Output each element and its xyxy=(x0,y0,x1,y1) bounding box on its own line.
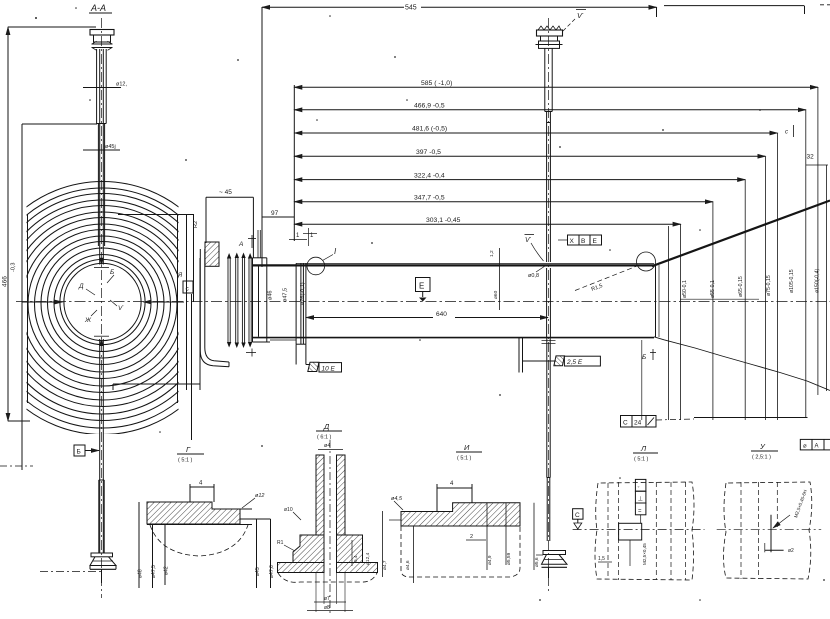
svg-text:ø2: ø2 xyxy=(788,548,794,554)
svg-text:32: 32 xyxy=(807,154,815,161)
detail У label xyxy=(752,442,771,461)
cone bottom edge xyxy=(654,337,830,391)
middle rod body xyxy=(544,48,546,111)
top dimension 545 xyxy=(262,6,404,8)
coil side cut edges xyxy=(27,214,29,403)
svg-text:ø12: ø12 xyxy=(255,493,264,499)
detail Г label xyxy=(178,445,193,464)
detail У thread callout rotated xyxy=(793,489,808,518)
dimension 466 xyxy=(21,124,23,470)
svg-text:466: 466 xyxy=(2,276,9,287)
detail Г leader ø12 xyxy=(255,493,264,499)
svg-text:ø48: ø48 xyxy=(138,569,144,578)
svg-text:c: c xyxy=(785,130,788,136)
svg-text:545: 545 xyxy=(405,5,417,12)
left outer dimension 593 xyxy=(7,27,9,421)
svg-text:( 5:1 ): ( 5:1 ) xyxy=(634,457,649,463)
svg-text:585 ( -1,0): 585 ( -1,0) xyxy=(421,80,452,87)
left rod body xyxy=(96,49,98,124)
centerline marks bottom-left xyxy=(0,465,33,467)
svg-text:ø150(-0,4): ø150(-0,4) xyxy=(815,269,821,293)
middle rod cap xyxy=(538,26,561,30)
collar on shaft xyxy=(295,263,297,344)
detail Л slot xyxy=(619,523,642,540)
mark Б at cone xyxy=(642,354,646,361)
svg-text:И: И xyxy=(464,443,470,452)
svg-text:ø105-0,15: ø105-0,15 xyxy=(789,269,795,293)
svg-text:ø7: ø7 xyxy=(324,596,330,602)
detail Г right dim verticals xyxy=(240,518,271,520)
svg-text:С: С xyxy=(623,420,628,427)
svg-text:ø5,6: ø5,6 xyxy=(534,557,540,567)
shaft bottom edge xyxy=(253,337,655,339)
svg-text:ø47,5: ø47,5 xyxy=(151,565,157,578)
left rod centerline xyxy=(101,18,103,598)
svg-text:R2: R2 xyxy=(193,221,199,228)
svg-text:ø4,5: ø4,5 xyxy=(391,496,403,502)
svg-text:ø4,9: ø4,9 xyxy=(487,555,493,565)
detail Д dashed bottom arcs xyxy=(278,573,377,582)
svg-text:Д: Д xyxy=(323,422,330,431)
extension line at x=294 xyxy=(293,85,295,241)
detail И dashed outline xyxy=(401,526,520,577)
rod dia label ø12 xyxy=(83,87,121,89)
svg-text:397 -0,5: 397 -0,5 xyxy=(416,149,441,156)
svg-text:Е: Е xyxy=(593,238,598,245)
svg-text:ø4: ø4 xyxy=(324,443,330,449)
svg-text:ø12,4: ø12,4 xyxy=(365,552,371,565)
svg-text:10 Е: 10 Е xyxy=(322,365,336,372)
middle rod collar xyxy=(539,41,560,48)
detail Д flange xyxy=(293,535,324,563)
left rod collar nut xyxy=(92,43,113,45)
svg-text:4: 4 xyxy=(450,481,454,487)
svg-text:( 5:1 ): ( 5:1 ) xyxy=(457,456,472,462)
svg-text:1: 1 xyxy=(310,233,314,239)
svg-text:Л: Л xyxy=(640,444,647,453)
svg-text:Б: Б xyxy=(77,449,81,456)
svg-text:Ѵ: Ѵ xyxy=(525,237,532,244)
svg-text:2,5 Е: 2,5 Е xyxy=(566,359,583,366)
small dims 1 xyxy=(289,239,307,241)
mark A xyxy=(238,241,243,248)
dimension stack line 5: 322,4 xyxy=(294,179,745,181)
svg-text:ø45: ø45 xyxy=(255,567,261,576)
svg-text:5,4: 5,4 xyxy=(353,555,359,562)
shaft top edge xyxy=(253,264,655,266)
svg-text:ø46: ø46 xyxy=(268,291,274,300)
dimension stack line 6: 347,7 xyxy=(294,201,713,203)
tolerance frame X B E xyxy=(568,235,602,245)
svg-text:=: = xyxy=(638,508,642,514)
section label A-A xyxy=(90,3,106,13)
roughness frame 10E under collar xyxy=(295,344,297,364)
dimension ~45 xyxy=(206,196,253,198)
leader V at shaft entry xyxy=(531,243,544,261)
extra dim line left of detail И xyxy=(382,511,384,577)
svg-text:R1: R1 xyxy=(277,540,284,546)
svg-text:481,6 (-0,5): 481,6 (-0,5) xyxy=(412,126,447,133)
svg-text:ø10: ø10 xyxy=(284,507,293,513)
detail Л label xyxy=(634,444,649,463)
svg-text:1,2: 1,2 xyxy=(489,250,495,257)
svg-text:ø50-0,1: ø50-0,1 xyxy=(682,280,688,298)
mark c top right xyxy=(785,130,788,136)
detail Л thread label xyxy=(642,543,647,565)
detail И hatched block xyxy=(401,503,520,526)
dimension stack line 1: 585 xyxy=(294,86,818,88)
svg-text:С: С xyxy=(575,512,580,519)
svg-text:R1,5: R1,5 xyxy=(591,283,604,293)
cone start step lines xyxy=(655,266,657,337)
svg-text:ø47,6: ø47,6 xyxy=(269,565,275,578)
cone top edge xyxy=(652,201,830,267)
left rod cap xyxy=(90,30,114,36)
dimension stack line 2: 466,9 xyxy=(294,109,806,111)
dimension stack line 3: 481,6 xyxy=(294,132,777,134)
svg-text:97: 97 xyxy=(271,210,279,217)
right-of-circle dimension lines xyxy=(118,214,194,216)
cone rotated diameter labels xyxy=(682,269,821,298)
detail У slot lines xyxy=(770,515,772,553)
detail Д right rotated labels xyxy=(353,552,371,565)
svg-text:⌀: ⌀ xyxy=(803,444,807,450)
label ø08 xyxy=(528,273,539,279)
svg-text:347,7 -0,5: 347,7 -0,5 xyxy=(414,194,445,201)
svg-text:Б: Б xyxy=(642,354,646,361)
detail Г dashed arc xyxy=(150,525,248,556)
shaft left steps xyxy=(252,258,254,342)
vertical dim at hole location xyxy=(499,248,501,310)
svg-text:Г: Г xyxy=(186,445,191,454)
cone bottom dimension line xyxy=(694,417,808,419)
svg-text:ø65-0,15: ø65-0,15 xyxy=(738,276,744,297)
detail Д tube walls xyxy=(316,455,324,535)
svg-text:ø76(-0,1): ø76(-0,1) xyxy=(300,282,306,305)
svg-text:ø42: ø42 xyxy=(164,566,170,575)
svg-text:ø75-0,15: ø75-0,15 xyxy=(766,275,772,296)
label 32 right edge xyxy=(807,154,815,161)
detail Д base plate xyxy=(278,563,325,573)
svg-text:Е: Е xyxy=(419,282,424,291)
svg-text:Х: Х xyxy=(570,238,575,245)
svg-text:640: 640 xyxy=(436,311,447,318)
svg-text:466,9 -0,5: 466,9 -0,5 xyxy=(414,103,445,110)
svg-text:ø5,59: ø5,59 xyxy=(506,552,512,565)
svg-text:( 5:1 ): ( 5:1 ) xyxy=(178,458,193,464)
extension pair above shaft start xyxy=(257,230,259,258)
detail Д centerline xyxy=(329,440,331,614)
dimension 97 xyxy=(262,216,294,218)
svg-text:А: А xyxy=(815,444,819,450)
svg-text:ø0,8: ø0,8 xyxy=(528,273,539,279)
detail Д label xyxy=(317,422,332,441)
svg-text:-0,3: -0,3 xyxy=(11,263,17,272)
spring end J-bracket xyxy=(200,249,229,367)
middle rod foot xyxy=(543,551,566,555)
svg-text:( 2,5:1 ): ( 2,5:1 ) xyxy=(752,455,771,461)
middle rod centerline xyxy=(548,18,550,592)
svg-text:⊥: ⊥ xyxy=(638,496,643,503)
svg-text:ø12,: ø12, xyxy=(116,82,127,88)
roughness frame 2,5E below shaft xyxy=(518,337,520,373)
detail Л centerline xyxy=(573,529,705,531)
svg-text:ø45j: ø45j xyxy=(105,144,116,150)
svg-text:Я: Я xyxy=(177,273,183,279)
detail И internal dims xyxy=(389,519,401,521)
detail У centerline xyxy=(717,528,822,530)
detail Г dim A xyxy=(190,486,214,488)
detail И label xyxy=(457,443,472,462)
svg-text:М2,5×0,45: М2,5×0,45 xyxy=(642,543,647,565)
svg-text:1: 1 xyxy=(296,233,300,239)
svg-text:В: В xyxy=(581,238,585,245)
middle rod joint at shaft xyxy=(542,340,556,342)
datum E box on centerline xyxy=(416,278,431,292)
svg-text:ø60: ø60 xyxy=(493,290,499,299)
detail Д bore lines xyxy=(323,455,325,573)
detail У dashed patch xyxy=(724,482,812,579)
detail Д bottom dims xyxy=(314,601,346,603)
svg-text:( 6:1 ): ( 6:1 ) xyxy=(317,435,332,441)
frame at right edge xyxy=(800,439,830,450)
svg-text:ø4,7: ø4,7 xyxy=(382,560,388,570)
svg-text:4: 4 xyxy=(199,481,203,487)
detail circle I xyxy=(307,257,325,275)
svg-text:2: 2 xyxy=(470,534,473,540)
svg-text:I: I xyxy=(334,247,337,256)
svg-text:322,4 -0,4: 322,4 -0,4 xyxy=(414,172,445,179)
svg-text:ø55-0,1: ø55-0,1 xyxy=(710,280,716,298)
svg-text:А: А xyxy=(238,241,243,248)
svg-text:ø8: ø8 xyxy=(324,605,330,611)
svg-text:Ѵ: Ѵ xyxy=(577,11,584,20)
tolerance frame C 24 at cone xyxy=(621,416,657,428)
datum box Б (left lower) xyxy=(74,445,85,456)
node letters around hole xyxy=(78,269,124,324)
svg-text:У: У xyxy=(759,442,766,451)
left rod foot xyxy=(91,553,113,557)
svg-text:Ж: Ж xyxy=(84,317,92,324)
detail Г left dim verticals xyxy=(138,502,140,588)
spring coil section (left view) xyxy=(0,182,229,435)
dimension stack line 7: 303,1 xyxy=(294,223,680,225)
svg-text:Ѵ: Ѵ xyxy=(118,305,124,312)
dimension 640 inside shaft xyxy=(306,317,433,319)
detail Г hatched block xyxy=(147,502,240,524)
detail Д leaders xyxy=(277,507,293,546)
detail Д dim ø4 xyxy=(324,443,330,449)
svg-text:A-A: A-A xyxy=(90,3,106,13)
svg-text:◦: ◦ xyxy=(638,485,640,491)
svg-text:24: 24 xyxy=(634,420,642,427)
splined section of shaft xyxy=(228,258,251,344)
svg-text:c: c xyxy=(186,286,190,293)
svg-text:303,1 -0,45: 303,1 -0,45 xyxy=(426,217,461,224)
svg-text:Д: Д xyxy=(78,283,84,290)
detail circle II at cone start xyxy=(637,252,656,271)
hatched end block xyxy=(205,242,219,266)
rotated diameter labels xyxy=(268,282,307,305)
detail И leader xyxy=(391,496,403,502)
dimension stack line 4: 397 xyxy=(294,155,765,157)
cone extension verticals xyxy=(642,87,827,420)
detail И dim A xyxy=(437,487,472,489)
svg-text:ø47,5: ø47,5 xyxy=(283,288,289,302)
detail Л stacked tolerance boxes xyxy=(635,479,646,491)
svg-text:1,5: 1,5 xyxy=(598,556,605,562)
svg-text:ø4,6: ø4,6 xyxy=(405,560,411,570)
main shaft centerline xyxy=(16,301,830,303)
hole diameter dimension arrows xyxy=(22,301,63,303)
rod dia label ø45j xyxy=(83,149,120,151)
leader IV at top xyxy=(563,19,575,31)
svg-text:М2,5×0,45-6Н: М2,5×0,45-6Н xyxy=(793,489,808,518)
detail Л dashed patch xyxy=(595,482,694,580)
detail Л datum C xyxy=(573,509,583,520)
svg-text:~ 45: ~ 45 xyxy=(219,189,232,196)
